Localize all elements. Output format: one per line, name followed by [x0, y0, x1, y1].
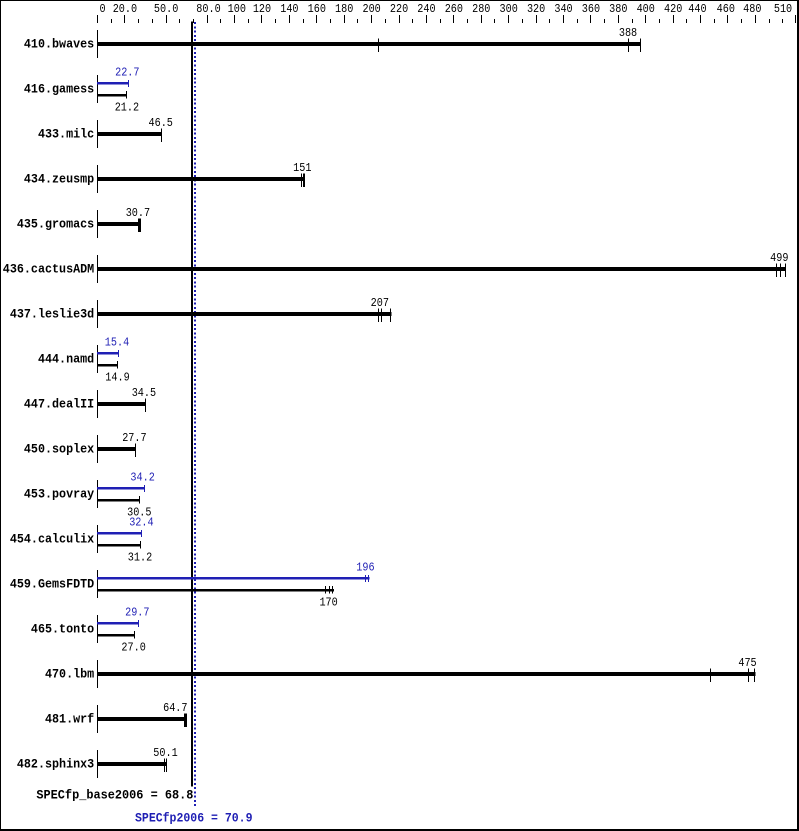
svg-text:220: 220: [390, 2, 408, 16]
svg-text:444.namd: 444.namd: [38, 352, 94, 367]
svg-text:240: 240: [417, 2, 435, 16]
svg-text:170: 170: [319, 596, 337, 610]
svg-text:50.0: 50.0: [154, 2, 178, 16]
svg-text:388: 388: [619, 26, 637, 40]
svg-text:50.1: 50.1: [153, 746, 177, 760]
svg-text:29.7: 29.7: [125, 606, 149, 620]
svg-text:15.4: 15.4: [105, 336, 129, 350]
svg-text:436.cactusADM: 436.cactusADM: [3, 262, 95, 277]
svg-text:160: 160: [308, 2, 326, 16]
svg-text:SPECfp2006 = 70.9: SPECfp2006 = 70.9: [135, 811, 253, 826]
svg-text:480: 480: [743, 2, 761, 16]
svg-text:151: 151: [293, 161, 311, 175]
svg-text:360: 360: [582, 2, 600, 16]
svg-text:450.soplex: 450.soplex: [24, 442, 94, 457]
svg-text:454.calculix: 454.calculix: [10, 532, 94, 547]
svg-text:434.zeusmp: 434.zeusmp: [24, 172, 94, 187]
svg-text:460: 460: [717, 2, 735, 16]
svg-text:499: 499: [770, 251, 788, 265]
svg-text:207: 207: [371, 296, 389, 310]
svg-text:410.bwaves: 410.bwaves: [24, 37, 94, 52]
svg-text:435.gromacs: 435.gromacs: [17, 217, 94, 232]
svg-text:20.0: 20.0: [113, 2, 137, 16]
svg-text:482.sphinx3: 482.sphinx3: [17, 757, 94, 772]
svg-text:481.wrf: 481.wrf: [45, 712, 94, 727]
svg-text:453.povray: 453.povray: [24, 487, 94, 502]
svg-text:340: 340: [554, 2, 572, 16]
svg-text:260: 260: [445, 2, 463, 16]
svg-text:120: 120: [253, 2, 271, 16]
svg-text:21.2: 21.2: [115, 101, 139, 115]
svg-text:0: 0: [99, 2, 105, 16]
svg-text:459.GemsFDTD: 459.GemsFDTD: [10, 577, 94, 592]
svg-text:416.gamess: 416.gamess: [24, 82, 94, 97]
svg-text:280: 280: [472, 2, 490, 16]
svg-text:14.9: 14.9: [105, 371, 129, 385]
svg-text:180: 180: [335, 2, 353, 16]
svg-text:27.0: 27.0: [121, 641, 145, 655]
svg-text:30.7: 30.7: [126, 206, 150, 220]
svg-text:27.7: 27.7: [122, 431, 146, 445]
svg-text:196: 196: [356, 561, 374, 575]
svg-text:80.0: 80.0: [196, 2, 220, 16]
svg-text:31.2: 31.2: [128, 551, 152, 565]
svg-text:440: 440: [688, 2, 706, 16]
svg-text:320: 320: [527, 2, 545, 16]
svg-text:34.2: 34.2: [130, 471, 154, 485]
svg-text:470.lbm: 470.lbm: [45, 667, 94, 682]
svg-text:32.4: 32.4: [129, 516, 153, 530]
svg-text:420: 420: [664, 2, 682, 16]
svg-text:200: 200: [362, 2, 380, 16]
svg-text:433.milc: 433.milc: [38, 127, 94, 142]
svg-text:447.dealII: 447.dealII: [24, 397, 94, 412]
svg-text:300: 300: [500, 2, 518, 16]
svg-text:380: 380: [609, 2, 627, 16]
svg-text:46.5: 46.5: [149, 116, 173, 130]
svg-text:475: 475: [738, 656, 756, 670]
svg-text:64.7: 64.7: [163, 701, 187, 715]
svg-text:437.leslie3d: 437.leslie3d: [10, 307, 94, 322]
svg-text:465.tonto: 465.tonto: [31, 622, 94, 637]
svg-text:400: 400: [637, 2, 655, 16]
svg-text:22.7: 22.7: [115, 66, 139, 80]
svg-text:100: 100: [228, 2, 246, 16]
svg-text:SPECfp_base2006 = 68.8: SPECfp_base2006 = 68.8: [36, 787, 193, 802]
svg-text:510: 510: [774, 2, 792, 16]
svg-text:34.5: 34.5: [132, 386, 156, 400]
svg-text:140: 140: [280, 2, 298, 16]
